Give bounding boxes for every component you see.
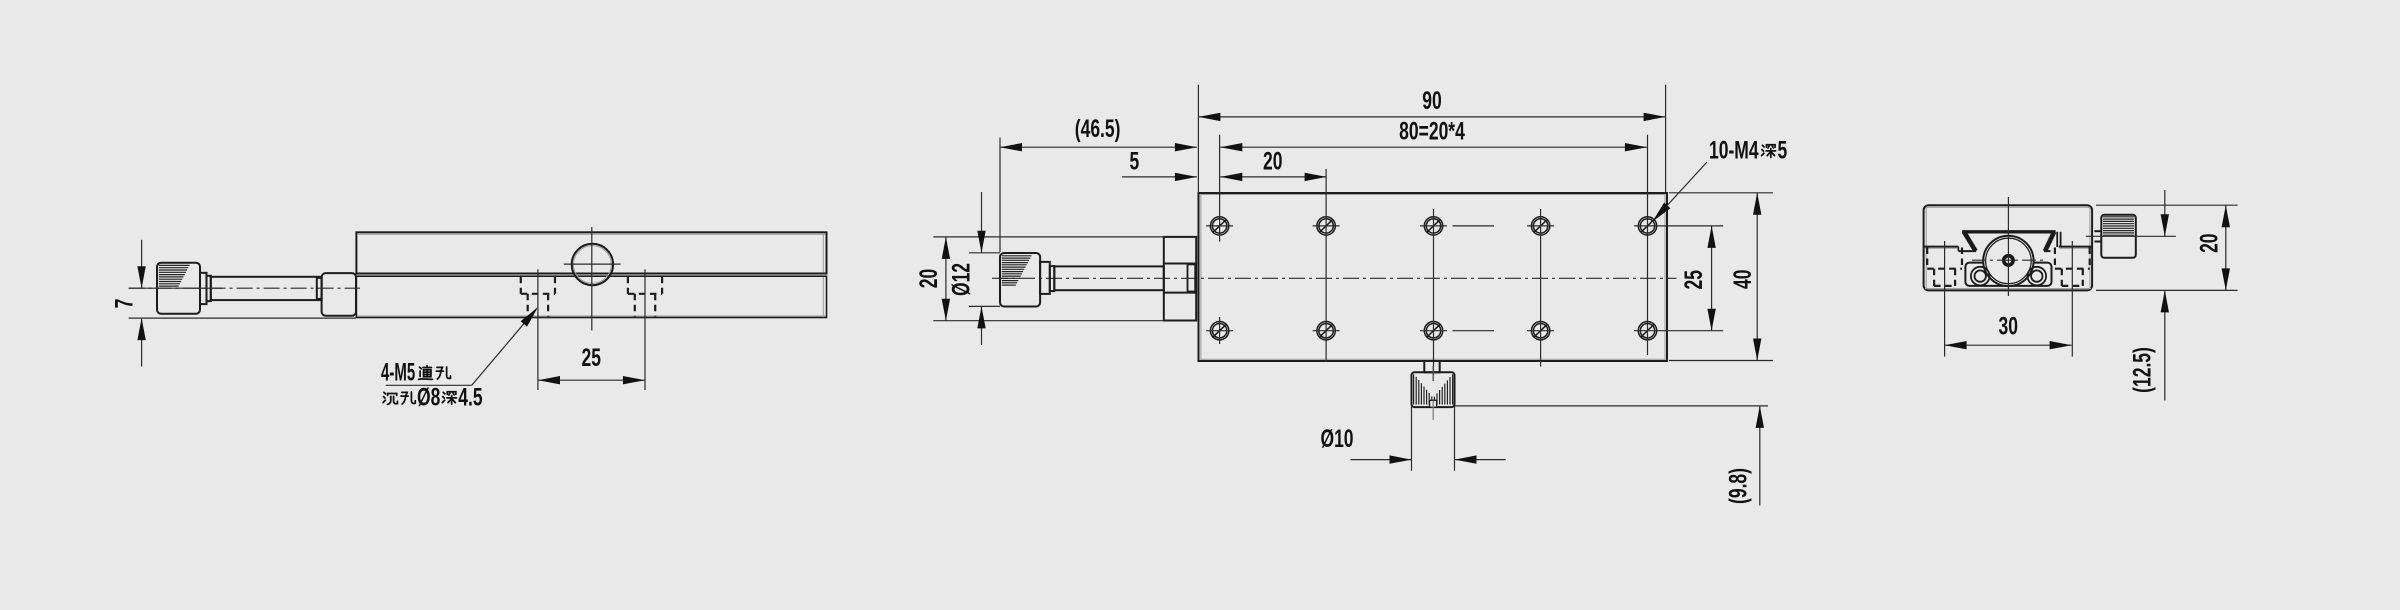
table bottom edge (end view) — [1962, 230, 2056, 233]
leader 10-M4 — [1652, 162, 1707, 222]
left side hole (hidden, end view) — [1927, 248, 1962, 286]
main table plate (top view) — [1199, 193, 1668, 361]
dimension text 90 — [1422, 86, 1441, 115]
svg-text:20: 20 — [1263, 146, 1282, 175]
shaft end step — [317, 278, 322, 299]
circle vertical centerline — [591, 227, 593, 331]
right step block — [2056, 232, 2058, 247]
table/base interface line — [356, 272, 572, 274]
dim (46.5) extension line — [999, 138, 1001, 253]
note text counterbore Ø8 depth 4.5 — [383, 392, 397, 404]
svg-text:(46.5): (46.5) — [1075, 114, 1121, 143]
leadscrew nut circle — [1983, 236, 2033, 286]
shaft (top view) — [1054, 266, 1164, 290]
side knob (end view) — [2101, 215, 2136, 258]
dimension text 7 — [109, 299, 138, 309]
center setscrew ring — [2004, 256, 2013, 265]
dimension (12.5) — [2164, 190, 2166, 236]
dimension 30 — [1945, 344, 2072, 346]
dimension text (9.8) — [1723, 468, 1752, 504]
knob neck lines — [2094, 230, 2101, 232]
hole column centerlines — [1219, 135, 1221, 242]
side hole centerline — [1944, 241, 1946, 357]
dimension 90 — [1198, 116, 1665, 118]
dimension 25 (hole rows) — [1711, 226, 1713, 331]
svg-text:(9.8): (9.8) — [1723, 468, 1752, 504]
bearing block (top view) — [1164, 237, 1196, 321]
slot notch bottom of knob — [1430, 400, 1437, 406]
svg-text:20: 20 — [2194, 233, 2223, 252]
svg-text:20: 20 — [914, 269, 943, 288]
dimension 40 — [1756, 193, 1758, 361]
shaft centerline (side view) — [129, 287, 360, 289]
knob Ø12 (top view) — [1000, 253, 1040, 307]
svg-text:10-M4: 10-M4 — [1709, 135, 1759, 164]
right counterbore hole (hidden) — [628, 277, 662, 317]
dimension 20 (hole pitch) — [1220, 176, 1326, 178]
end view vertical centerline — [2007, 197, 2009, 296]
svg-text:4.5: 4.5 — [458, 382, 482, 411]
knurl hatch on Ø12 knob — [1002, 256, 1032, 285]
svg-text:40: 40 — [1728, 270, 1757, 289]
10 x M4 tapped holes — [1210, 217, 1656, 340]
dimension (46.5) — [1000, 146, 1197, 148]
dimension text 25 rows — [1679, 270, 1708, 289]
leader line for counterbore note — [386, 384, 472, 386]
dimension (9.8) — [1759, 406, 1761, 506]
right side hole (hidden, end view) — [2055, 248, 2090, 286]
dimension text 20 left — [914, 269, 943, 288]
dimension 7 extension line (bottom) — [129, 317, 356, 319]
dimension 7 line + arrows — [141, 240, 143, 288]
svg-text:Ø8: Ø8 — [417, 382, 440, 411]
svg-text:4-M5: 4-M5 — [381, 359, 415, 387]
dimension text 20 pitch — [1263, 146, 1282, 175]
dim Ø10 extension lines — [1411, 406, 1413, 471]
dim (9.8) extension line — [1455, 405, 1768, 407]
side knob centerline — [2086, 235, 2176, 237]
bottom bracket (drawn first, clipped by nut circle) — [1965, 263, 2051, 286]
micrometer knob (side view) — [157, 263, 200, 314]
dimension text 80=20*4 — [1399, 116, 1465, 145]
bracket screw left — [1971, 267, 1990, 286]
dimension text Ø12 — [946, 263, 975, 296]
dimension 5 — [1122, 176, 1197, 178]
dimension 20 (end view) — [2225, 205, 2227, 290]
dim 25 extension lines (right) — [1661, 225, 1723, 227]
bearing block (side view) — [322, 273, 356, 316]
dim 20 (left, shaft block height) extension lines — [933, 236, 1164, 238]
svg-text:7: 7 — [109, 299, 138, 309]
dimension text 30 — [1998, 311, 2017, 340]
dimension text 5 — [1130, 146, 1140, 175]
hole centerline ticks — [1206, 226, 1661, 331]
dimension Ø12 — [981, 192, 983, 253]
dimension text (46.5) — [1075, 114, 1121, 143]
dimension 7 extension line (axis) — [129, 287, 223, 289]
dimension 80=20*4 — [1220, 146, 1647, 148]
dim 90 extension lines — [1197, 85, 1199, 193]
end view body outline — [1924, 205, 2093, 290]
svg-text:25: 25 — [581, 343, 600, 372]
end view horizontal centerline — [1972, 259, 2045, 261]
left dovetail wedge — [1957, 247, 1959, 252]
dimension text 20 end view — [2194, 233, 2223, 252]
dim Ø12 extension lines — [969, 252, 1000, 254]
knurl on Ø10 knob (V pattern) — [1414, 374, 1453, 404]
dimension 25 line (side view) — [538, 379, 645, 381]
dim 20 (end view) extension lines — [2096, 204, 2238, 206]
moving table (side view) — [356, 232, 826, 273]
bracket screw right — [2028, 267, 2047, 286]
dimension text 40 — [1728, 270, 1757, 289]
Ø10 lock knob neck (top view bottom) — [1424, 361, 1439, 372]
saddle top line left — [1924, 246, 1959, 248]
circle horizontal centerline — [564, 263, 621, 265]
stage base (side view) — [356, 276, 826, 317]
side lock knob circle — [572, 244, 613, 285]
right dovetail wedge — [2044, 250, 2051, 252]
svg-text:90: 90 — [1422, 86, 1441, 115]
dimension 20 (left) — [945, 237, 947, 321]
center tick on Ø10 knob — [1432, 366, 1434, 381]
svg-text:30: 30 — [1998, 311, 2017, 340]
side hole centerline — [2071, 241, 2073, 357]
knurl on side knob — [2103, 217, 2134, 235]
svg-text:25: 25 — [1679, 270, 1708, 289]
dimension text Ø10 — [1320, 424, 1353, 453]
note text 10-M4 depth 5 — [1709, 135, 1759, 164]
knob collar — [200, 273, 207, 304]
knurl hatch on knob — [159, 265, 190, 286]
shaft end rect inside block — [1188, 264, 1196, 291]
svg-text:5: 5 — [1778, 135, 1788, 164]
Ø10 lock knob — [1412, 372, 1455, 407]
leadscrew shaft (side view) — [211, 277, 322, 300]
saddle top line right — [2059, 246, 2092, 248]
knob collar (top view) — [1040, 262, 1050, 294]
dimension text (12.5) — [2127, 347, 2156, 393]
svg-text:Ø10: Ø10 — [1320, 424, 1353, 453]
svg-text:5: 5 — [1130, 146, 1140, 175]
dimension Ø10 — [1350, 459, 1411, 461]
dim 40 extension lines — [1669, 192, 1773, 194]
stage centerline (top view) — [992, 277, 1677, 279]
note text 4-M5 through hole — [381, 359, 415, 387]
dimension text 25 (side view) — [581, 343, 600, 372]
left counterbore hole (hidden) — [521, 277, 555, 317]
hole centerline — [644, 269, 646, 390]
svg-text:(12.5): (12.5) — [2127, 347, 2156, 393]
svg-text:Ø12: Ø12 — [946, 263, 975, 296]
hole centerline — [537, 269, 539, 390]
svg-text:80=20*4: 80=20*4 — [1399, 116, 1465, 145]
